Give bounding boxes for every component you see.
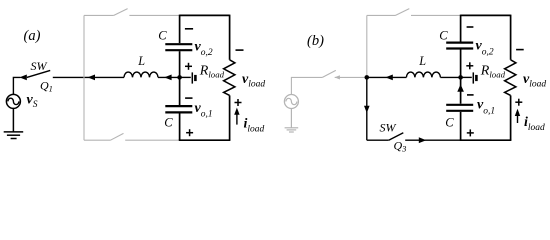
wire: right branch upper (a)	[229, 15, 231, 60]
polarity minus (vload, a)	[236, 49, 244, 51]
svg-text:SW: SW	[380, 121, 397, 135]
node B junction dot	[365, 75, 370, 80]
wire: source up to switch corner	[13, 77, 20, 94]
switch SW Q1 blade	[27, 70, 50, 77]
wire: top rail of output frame (b)	[461, 14, 511, 16]
load tap bars (a)	[191, 72, 193, 83]
current arrow at node A	[164, 75, 171, 81]
wire: inductor to node C (b)	[440, 76, 460, 78]
polarity plus (vload, a)	[235, 99, 242, 106]
wire: node A stub to load tap (a)	[180, 76, 191, 78]
wire: right branch lower (a)	[229, 95, 231, 140]
polarity plus (vo1, a)	[186, 129, 193, 136]
polarity minus (vo2, b)	[467, 26, 474, 28]
inactive rail (a): vertical gray	[83, 15, 85, 140]
load tap bars (b)	[472, 72, 474, 83]
inactive wire: switch to node B with arrow (b)	[335, 76, 367, 78]
capacitor C (vo1) plates	[165, 106, 192, 112]
wire: bottom rail of output frame (a)	[179, 139, 231, 141]
current arrow right (b bottom)	[419, 137, 426, 143]
wire: node B to inductor (b)	[367, 76, 407, 78]
svg-text:SW: SW	[31, 59, 48, 73]
inactive switch blade (a bottom)	[111, 133, 124, 140]
resistor Rload zigzag (b)	[505, 60, 516, 96]
inactive top rail wire (b)	[367, 14, 396, 16]
inactive rail: node B up (b)	[366, 15, 368, 77]
wire: bottom rail of output frame (b)	[460, 139, 512, 141]
polarity plus (vo2, a)	[185, 63, 192, 70]
wire: inductor to node A	[158, 76, 180, 78]
polarity minus (vo1, b)	[467, 94, 474, 96]
svg-text:C: C	[164, 116, 173, 130]
polarity minus (vo2, a)	[185, 28, 193, 30]
current arrow up below node C (b)	[457, 84, 464, 92]
capacitor C (vo2, b) plates	[446, 43, 473, 49]
inactive bottom rail wire (a)	[84, 139, 111, 141]
wire: right branch lower (b)	[510, 95, 512, 140]
wire: left branch lower (b)	[460, 112, 462, 140]
svg-text:C: C	[439, 29, 448, 43]
current arrow on wire (b)	[385, 75, 392, 81]
inactive switch blade (b top)	[396, 9, 410, 16]
capacitor C (vo1, b) plates	[446, 105, 473, 111]
inactive current arrow (b)	[335, 75, 340, 79]
node A junction dot	[177, 75, 182, 80]
wire: node C stub to load tap (b)	[461, 76, 472, 78]
svg-text:(a): (a)	[24, 28, 41, 44]
current arrow iload (a)	[234, 108, 239, 125]
current arrow iload (b)	[515, 109, 520, 123]
node C junction dot	[458, 75, 463, 80]
polarity plus (vo2, b)	[466, 62, 473, 69]
inactive top rail wire (a)	[84, 14, 114, 16]
wire: left branch lower (a)	[179, 113, 181, 140]
wire: left branch middle (a)	[179, 51, 181, 105]
ground (b, gray)	[285, 109, 299, 133]
inactive switch blade (a top)	[114, 9, 128, 16]
svg-text:C: C	[445, 116, 454, 130]
inactive bottom rail wire to frame (a)	[125, 139, 179, 141]
polarity plus (vo1, b)	[467, 129, 474, 136]
source vS (b, inactive gray)	[284, 95, 298, 109]
svg-text:C: C	[158, 29, 167, 43]
capacitor C (vo2) plates	[165, 44, 192, 50]
wire: left branch upper (a)	[179, 15, 181, 43]
inductor L (b)	[406, 72, 440, 77]
polarity minus (vo1, a)	[185, 97, 192, 99]
inductor L	[124, 72, 158, 77]
wire: left branch middle (b)	[460, 50, 462, 104]
current arrow toward source	[19, 75, 26, 81]
svg-text:(b): (b)	[307, 33, 324, 49]
inactive wire: source to switch (b)	[291, 77, 322, 94]
wire: right branch upper (b)	[510, 15, 512, 60]
polarity minus (vload, b)	[516, 49, 524, 51]
wire: bottom to switch (b)	[367, 139, 389, 141]
wire: switch to frame (b)	[405, 139, 460, 141]
inactive top rail wire to frame (b)	[411, 14, 461, 16]
wire: switch to inductor	[53, 76, 124, 78]
current arrow down (b)	[364, 106, 370, 113]
ground	[4, 108, 24, 138]
inactive top rail wire to frame (a)	[129, 14, 179, 16]
svg-text:L: L	[137, 54, 145, 68]
polarity plus (vload, b)	[515, 99, 522, 106]
inactive switch blade (b source)	[322, 70, 335, 77]
switch SW Q3 blade	[389, 133, 404, 140]
wire: top rail of output frame (a)	[180, 14, 230, 16]
svg-text:L: L	[418, 54, 426, 68]
resistor Rload zigzag (a)	[224, 60, 235, 96]
wire: left branch upper (b)	[460, 15, 462, 42]
source vS (AC)	[6, 94, 20, 108]
current arrow on wire	[88, 75, 95, 81]
wire: node B down branch (b)	[366, 77, 368, 140]
